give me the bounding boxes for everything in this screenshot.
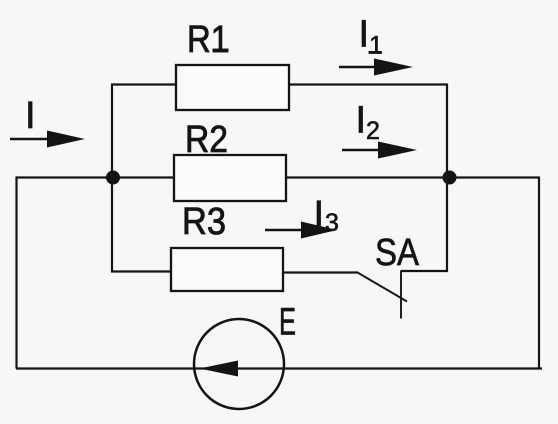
wire: left branch vertical xyxy=(111,85,113,272)
wire: switch contact to right branch xyxy=(401,270,448,272)
svg-text:2: 2 xyxy=(366,117,380,145)
svg-text:R1: R1 xyxy=(187,19,229,61)
arrow I2 shaft xyxy=(342,149,405,151)
svg-text:I: I xyxy=(359,14,370,56)
svg-text:R3: R3 xyxy=(182,201,226,243)
wire: node B to right outer xyxy=(449,176,539,178)
source E circle xyxy=(194,319,284,409)
wire: right outer vertical xyxy=(538,177,540,370)
arrow I head xyxy=(47,131,85,148)
arrow I2 head xyxy=(378,142,417,159)
svg-text:1: 1 xyxy=(369,32,383,60)
node A (left junction dot) xyxy=(106,171,120,185)
label R1 digit foot xyxy=(213,49,229,53)
arrow I1 head xyxy=(374,59,413,76)
source E arrow head xyxy=(200,361,239,377)
wire: R3 right lead to switch pole xyxy=(283,271,358,273)
svg-text:E: E xyxy=(279,302,296,344)
arrow I1 shaft xyxy=(339,66,400,68)
wire: bottom horizontal xyxy=(16,367,542,369)
svg-text:3: 3 xyxy=(325,209,339,237)
wire: R3 left lead xyxy=(111,270,171,272)
svg-text:I: I xyxy=(356,100,367,142)
resistor R3 xyxy=(171,248,283,291)
wire: R1 left lead xyxy=(111,83,176,85)
resistor R1 xyxy=(176,65,289,110)
arrow I shaft xyxy=(10,138,70,140)
wire: R2 right lead xyxy=(286,176,449,178)
switch SA blade xyxy=(358,273,408,302)
wire: R1 right lead xyxy=(289,83,447,85)
svg-text:SA: SA xyxy=(375,232,420,274)
switch SA fixed contact vertical xyxy=(400,271,402,319)
label I1 subscript foot xyxy=(369,51,382,54)
node B (right junction dot) xyxy=(443,171,457,185)
resistor R2 xyxy=(174,155,286,201)
arrow I3 shaft xyxy=(265,229,325,231)
wire: middle horizontal left (node to R2) xyxy=(16,176,175,178)
svg-text:R2: R2 xyxy=(185,119,228,161)
wire: right branch vertical xyxy=(446,84,448,272)
arrow I3 head xyxy=(301,222,337,239)
svg-text:I: I xyxy=(25,95,36,137)
wire: left outer vertical xyxy=(15,178,17,369)
